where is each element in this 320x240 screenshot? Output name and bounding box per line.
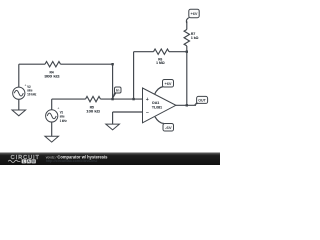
- svg-text:1 MΩ: 1 MΩ: [156, 60, 165, 65]
- svg-text:http://circuitlab.com/c/bv62m2: http://circuitlab.com/c/bv62m2: [46, 159, 98, 163]
- svg-text:-6V: -6V: [165, 125, 172, 130]
- svg-text:+6V: +6V: [191, 11, 198, 16]
- svg-text:B: B: [32, 160, 35, 164]
- svg-text:300 kΩ: 300 kΩ: [44, 74, 60, 79]
- svg-text:1 kHz: 1 kHz: [60, 118, 67, 123]
- svg-text:+: +: [25, 84, 27, 88]
- svg-text:TL081: TL081: [152, 105, 163, 110]
- svg-text:OUT: OUT: [198, 98, 206, 103]
- svg-text:+: +: [146, 97, 149, 103]
- svg-text:1 kΩ: 1 kΩ: [191, 35, 199, 40]
- svg-text:−: −: [146, 110, 149, 116]
- svg-text:+6V: +6V: [165, 81, 172, 86]
- svg-text:A: A: [27, 160, 30, 164]
- svg-text:10 kHz: 10 kHz: [27, 91, 36, 96]
- svg-text:100 kΩ: 100 kΩ: [86, 109, 101, 114]
